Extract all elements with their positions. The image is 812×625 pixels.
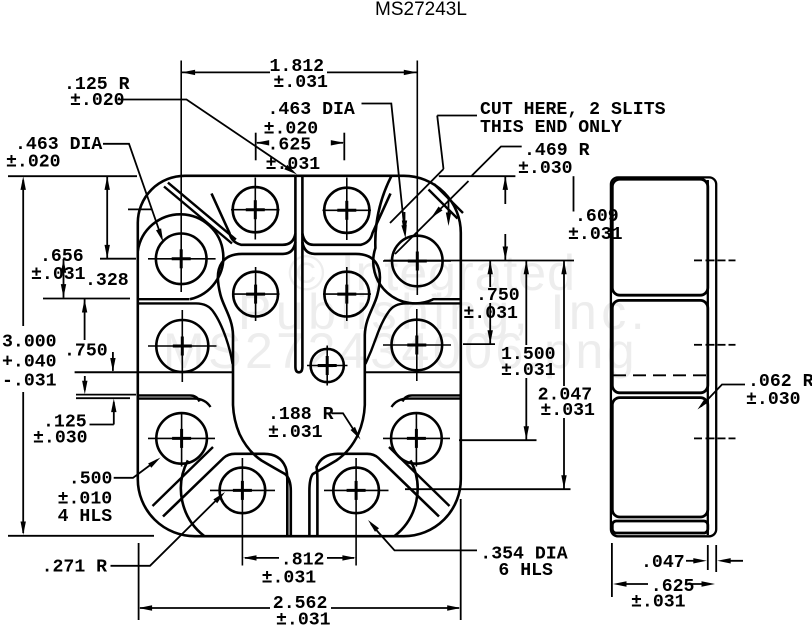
svg-text:.271 R: .271 R: [42, 558, 108, 578]
svg-text:+.040: +.040: [2, 353, 57, 373]
svg-text:.469 R: .469 R: [524, 141, 590, 161]
svg-text:±.031: ±.031: [631, 593, 686, 613]
svg-text:CUT HERE, 2 SLITS: CUT HERE, 2 SLITS: [480, 100, 666, 120]
svg-text:±.031: ±.031: [273, 73, 328, 93]
svg-text:±.030: ±.030: [33, 429, 88, 449]
svg-text:THIS END ONLY: THIS END ONLY: [480, 118, 622, 138]
svg-text:±.031: ±.031: [262, 569, 317, 589]
svg-text:.750: .750: [476, 286, 520, 306]
svg-text:.188 R: .188 R: [268, 405, 334, 425]
svg-text:±.031: ±.031: [276, 611, 331, 625]
svg-text:.750: .750: [64, 342, 108, 362]
svg-text:±.031: ±.031: [568, 225, 623, 245]
svg-text:.328: .328: [85, 271, 129, 291]
svg-text:±.031: ±.031: [268, 423, 323, 443]
svg-text:±.030: ±.030: [518, 159, 573, 179]
svg-text:4 HLS: 4 HLS: [58, 507, 113, 527]
svg-text:±.031: ±.031: [540, 401, 595, 421]
svg-text:.062 R: .062 R: [748, 372, 812, 392]
svg-text:.812: .812: [281, 551, 325, 571]
svg-text:±.030: ±.030: [746, 390, 801, 410]
svg-text:.463 DIA: .463 DIA: [268, 100, 355, 120]
svg-text:±.031: ±.031: [31, 265, 86, 285]
svg-text:3.000: 3.000: [2, 333, 57, 353]
svg-text:MS27243L: MS27243L: [375, 0, 467, 20]
svg-text:±.031: ±.031: [463, 304, 518, 324]
svg-text:±.020: ±.020: [6, 153, 61, 173]
svg-text:.500: .500: [69, 470, 113, 490]
svg-text:6 HLS: 6 HLS: [498, 561, 553, 581]
svg-text:±.020: ±.020: [70, 91, 125, 111]
svg-text:.625: .625: [268, 136, 312, 156]
svg-text:.656: .656: [40, 247, 84, 267]
svg-text:±.031: ±.031: [501, 361, 556, 381]
svg-text:-.031: -.031: [2, 372, 57, 392]
svg-text:.047: .047: [641, 553, 685, 573]
